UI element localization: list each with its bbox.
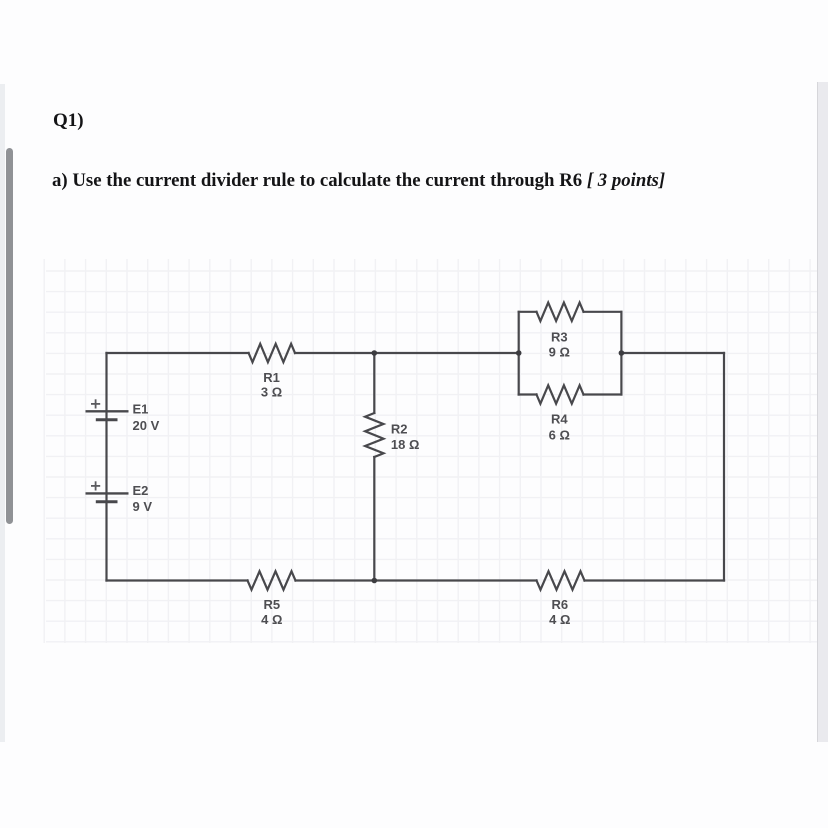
- svg-text:4 Ω: 4 Ω: [549, 612, 570, 627]
- resistor R1: [249, 344, 295, 362]
- svg-text:R2: R2: [391, 422, 408, 437]
- right page-edge band: [817, 82, 828, 742]
- question line: [52, 170, 665, 192]
- battery E2: [86, 493, 129, 501]
- labels: [133, 330, 571, 628]
- wire top left: [107, 352, 249, 354]
- svg-text:20 V: 20 V: [133, 418, 160, 433]
- svg-text:3 Ω: 3 Ω: [261, 385, 282, 400]
- resistor R2: [365, 413, 383, 457]
- left page-edge strip: [0, 84, 5, 742]
- battery E1: [86, 411, 129, 420]
- wire box bottom left: [519, 393, 537, 395]
- svg-text:R5: R5: [263, 597, 280, 612]
- node C junction dot (box right): [619, 350, 625, 356]
- wire box top right: [584, 311, 622, 313]
- resistor R5: [248, 571, 296, 589]
- svg-text:E1: E1: [133, 402, 149, 417]
- plus sign E1: [91, 399, 100, 408]
- wire R2 branch top: [373, 353, 375, 413]
- E2 negative plate: [96, 500, 118, 503]
- wire top right: [621, 352, 724, 354]
- node D junction dot (bottom): [372, 578, 378, 584]
- wire bottom mid: [296, 579, 537, 581]
- svg-text:18 Ω: 18 Ω: [391, 437, 420, 452]
- svg-text:9 V: 9 V: [133, 499, 153, 514]
- wire box bottom right: [584, 393, 622, 395]
- svg-text:4 Ω: 4 Ω: [261, 612, 282, 627]
- wire R2 branch bottom: [373, 457, 375, 581]
- E2 positive plate: [86, 492, 129, 494]
- wire top mid: [295, 352, 519, 354]
- wire bottom left: [107, 579, 248, 581]
- node B junction dot (box left): [516, 350, 522, 356]
- grid background: [44, 259, 817, 643]
- svg-text:6 Ω: 6 Ω: [549, 428, 570, 443]
- svg-text:R4: R4: [551, 412, 568, 427]
- scrollbar: [6, 148, 13, 524]
- node A junction dot: [372, 350, 378, 356]
- parallel box left edge: [518, 312, 520, 395]
- wire right side: [723, 353, 725, 581]
- wire left side: [105, 353, 107, 581]
- title Q1): [53, 110, 84, 132]
- svg-text:R3: R3: [551, 330, 568, 345]
- svg-text:9 Ω: 9 Ω: [549, 344, 570, 359]
- resistor R6: [537, 571, 585, 589]
- E1 positive plate: [86, 410, 129, 412]
- parallel box right edge: [620, 312, 622, 395]
- wire bottom right: [585, 579, 725, 581]
- svg-text:E2: E2: [133, 483, 149, 498]
- resistor R4: [537, 385, 584, 403]
- wire box top left: [519, 311, 537, 313]
- E1 negative plate: [96, 418, 118, 421]
- svg-text:R1: R1: [263, 370, 280, 385]
- svg-text:R6: R6: [551, 597, 568, 612]
- resistor R3: [537, 303, 584, 321]
- plus sign E2: [91, 481, 100, 490]
